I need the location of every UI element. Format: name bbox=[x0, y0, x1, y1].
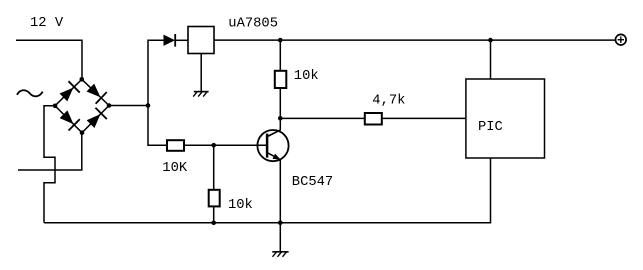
junction dot above PIC bbox=[488, 38, 493, 43]
wire regulator ground pin bbox=[200, 54, 202, 92]
svg-text:10k: 10k bbox=[228, 197, 253, 213]
wire collector bbox=[279, 118, 281, 130]
junction dot at 10k top bbox=[278, 38, 283, 43]
wire regulator output to + terminal bbox=[214, 39, 616, 41]
AC source tilde bbox=[17, 90, 43, 96]
junction dot base node bbox=[211, 143, 216, 148]
resistor R4 10k (vertical pulldown) bbox=[209, 190, 220, 207]
bridge diode D2 (top-to-right arm) bbox=[85, 82, 107, 104]
wire diode to regulator bbox=[175, 39, 188, 41]
junction dot node DC+ bbox=[146, 103, 151, 108]
svg-text:PIC: PIC bbox=[478, 120, 503, 135]
bridge node dot bottom bbox=[80, 130, 85, 135]
svg-text:4,7k: 4,7k bbox=[372, 93, 405, 109]
bridge diode D3 (left-to-bottom arm) bbox=[58, 109, 80, 131]
svg-text:12 V: 12 V bbox=[30, 16, 64, 31]
wire R2 to PIC bbox=[382, 117, 466, 119]
junction dot collector node bbox=[278, 116, 283, 121]
resistor R2 4,7k (horizontal) bbox=[365, 113, 382, 125]
bridge node dot left bbox=[53, 104, 58, 109]
wire AC input bottom bbox=[18, 133, 82, 170]
wire top junction down to R1 bbox=[279, 40, 281, 71]
bridge diode D1 (left-to-top arm) bbox=[58, 81, 80, 103]
wire bridge right node to junction bbox=[109, 105, 148, 107]
wire PIC bottom to rail bbox=[44, 158, 491, 223]
resistor R1 10k (vertical) bbox=[275, 71, 287, 88]
svg-text:BC547: BC547 bbox=[292, 175, 333, 190]
wire DC+ junction down to base resistor row bbox=[148, 106, 167, 146]
bridge node dot right bbox=[107, 103, 112, 108]
wire junction up to diode anode bbox=[148, 40, 164, 105]
junction dot rail at R4 bbox=[211, 221, 216, 226]
wire AC input top bbox=[16, 40, 82, 79]
diode D5 series bbox=[164, 34, 176, 47]
bridge rectifier arms bbox=[55, 79, 109, 132]
wire collector node to R2 bbox=[280, 117, 365, 119]
voltage regulator U1 uA7805 bbox=[188, 27, 214, 54]
svg-text:10k: 10k bbox=[294, 68, 319, 84]
svg-text:uA7805: uA7805 bbox=[228, 17, 278, 32]
bridge node dot top bbox=[80, 77, 85, 82]
svg-text:10K: 10K bbox=[162, 161, 188, 176]
transistor Q1 BC547 bbox=[257, 130, 288, 161]
terminal + output bbox=[616, 34, 627, 45]
junction dot rail at emitter bbox=[278, 221, 283, 226]
wire R1 to collector node bbox=[279, 88, 281, 118]
PIC box U2 bbox=[466, 79, 545, 158]
bridge diode D4 (bottom-to-right arm) bbox=[85, 108, 107, 130]
wire emitter to rail and ground bbox=[279, 160, 281, 252]
resistor R3 10K (horizontal) bbox=[167, 140, 184, 151]
ground (emitter) bbox=[272, 252, 288, 257]
ground (regulator) bbox=[193, 92, 208, 97]
wire base node down to R4 bbox=[213, 145, 215, 190]
wire R3 to base bbox=[184, 144, 267, 146]
wire bridge left node to bottom rail (with crossover jog) bbox=[44, 106, 55, 223]
wire top junction to PIC bbox=[490, 40, 492, 79]
wire R4 to rail bbox=[213, 206, 215, 222]
